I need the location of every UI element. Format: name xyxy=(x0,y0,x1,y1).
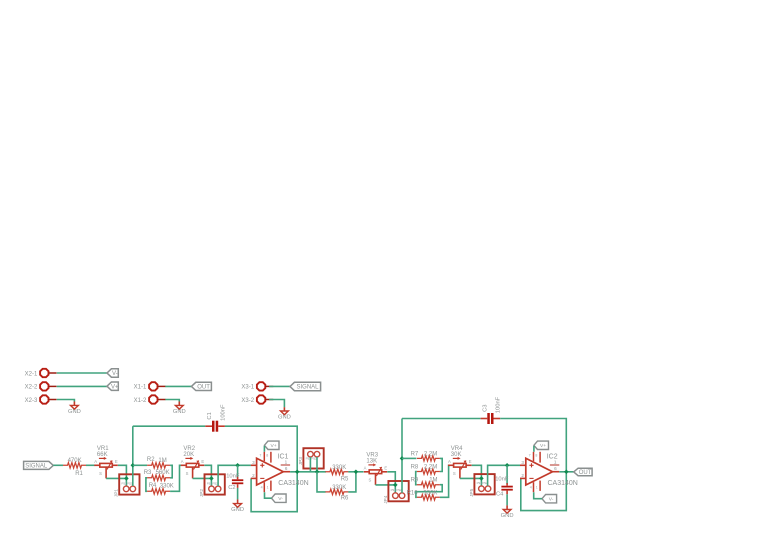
svg-text:4: 4 xyxy=(261,486,263,490)
svg-text:GND: GND xyxy=(173,409,186,415)
potentiometer VR3 13K xyxy=(364,453,388,485)
net flag V- xyxy=(107,369,118,377)
wire VR4 wiper to junction xyxy=(460,477,482,479)
wire R3 to R4 xyxy=(146,478,147,492)
capacitor C3 100nF xyxy=(481,396,502,424)
ground GND at C4 xyxy=(501,510,514,520)
svg-text:330K: 330K xyxy=(423,491,437,497)
label R9 value xyxy=(411,478,438,484)
svg-text:A: A xyxy=(181,459,184,464)
wire SIGNAL to R1 xyxy=(53,464,63,466)
resistor R10 xyxy=(417,495,440,501)
wire R1 to VR1 xyxy=(86,464,95,466)
connector pin X2-1 xyxy=(25,369,57,378)
svg-text:GND: GND xyxy=(501,513,514,519)
wire R4 to VR2 xyxy=(170,465,181,491)
wire X2-1 to V- xyxy=(57,372,107,374)
wire R9 to R10 xyxy=(416,485,442,498)
wire X2-2 to V+ xyxy=(57,385,107,387)
svg-text:3: 3 xyxy=(252,460,255,465)
svg-text:V+: V+ xyxy=(111,384,119,390)
connector pin X2-3 xyxy=(25,395,57,404)
svg-text:GND: GND xyxy=(231,507,244,513)
svg-text:13K: 13K xyxy=(366,458,377,464)
net flag SIGNAL xyxy=(290,382,321,390)
svg-text:R10: R10 xyxy=(407,490,419,496)
power flag V+ at IC1 xyxy=(264,441,279,449)
wire VR2-E down to JP2 xyxy=(204,465,211,486)
junction VR1 wiper/E xyxy=(124,476,129,481)
svg-text:P$1 P$2: P$1 P$2 xyxy=(207,481,218,485)
wire VR1-E down to JP1 xyxy=(118,465,127,486)
label R10 value xyxy=(407,490,438,496)
svg-text:8: 8 xyxy=(535,454,537,458)
wire R8 to R9 xyxy=(416,472,417,485)
svg-text:2.2M: 2.2M xyxy=(424,452,437,458)
svg-text:X3-1: X3-1 xyxy=(241,385,254,391)
wire X3-2 to ground xyxy=(269,400,284,408)
svg-text:C4: C4 xyxy=(496,492,504,498)
svg-text:X1-2: X1-2 xyxy=(134,398,147,404)
svg-text:E: E xyxy=(201,459,204,464)
wire ground stem xyxy=(73,402,75,406)
label R7 value xyxy=(411,452,438,458)
svg-text:JP5: JP5 xyxy=(469,488,475,497)
power flag V- at IC2 xyxy=(542,495,557,503)
capacitor C4 10nF xyxy=(501,483,512,494)
wire node A to R2 xyxy=(133,464,147,466)
svg-text:X2-3: X2-3 xyxy=(25,398,38,404)
wire IC2 pin4 to V- flag xyxy=(534,492,542,499)
svg-text:4: 4 xyxy=(530,486,532,490)
svg-text:V-: V- xyxy=(549,497,554,503)
wire IC1 output to R5 xyxy=(290,471,326,473)
svg-text:10nF: 10nF xyxy=(226,474,240,480)
net flag OUT output xyxy=(574,468,592,476)
resistor R7 xyxy=(417,456,440,462)
connector pin X1-1 xyxy=(134,382,166,391)
svg-text:V-: V- xyxy=(112,371,118,377)
svg-text:OUT: OUT xyxy=(579,470,592,476)
ground GND at X2-3 xyxy=(68,405,81,415)
wire R5 to VR3 xyxy=(348,471,363,473)
svg-text:V-: V- xyxy=(278,496,283,502)
svg-text:A: A xyxy=(448,459,451,464)
svg-text:330K: 330K xyxy=(160,483,174,489)
svg-text:330K: 330K xyxy=(332,485,346,491)
wire X1-2 to ground xyxy=(165,400,179,402)
wire node D to C4 xyxy=(506,465,508,484)
wire JP3 to R6 xyxy=(317,472,326,492)
svg-text:2: 2 xyxy=(252,473,255,478)
wire VR3 wiper to junction xyxy=(376,484,396,486)
wire VR3-E down to JP4 xyxy=(387,472,395,493)
svg-text:S: S xyxy=(99,471,102,476)
svg-text:E: E xyxy=(469,459,472,464)
wire VR1 wiper to junction xyxy=(106,477,126,479)
svg-text:2.2M: 2.2M xyxy=(424,464,437,470)
wire IC2 output to OUT xyxy=(559,471,573,473)
svg-text:470K: 470K xyxy=(68,458,82,464)
svg-text:R9: R9 xyxy=(411,478,419,484)
svg-text:C3: C3 xyxy=(483,404,489,411)
resistor R5 xyxy=(325,469,348,475)
svg-text:R3: R3 xyxy=(144,470,152,476)
svg-text:7: 7 xyxy=(529,454,531,458)
svg-text:OUT: OUT xyxy=(197,385,210,391)
svg-text:1: 1 xyxy=(536,486,538,490)
wire V+ flag to IC1 pin7 xyxy=(263,446,265,452)
svg-text:1M: 1M xyxy=(158,458,166,464)
wire ground stem xyxy=(237,499,239,503)
junction VR2 wiper/E xyxy=(209,476,214,481)
svg-text:C2: C2 xyxy=(228,485,235,491)
svg-text:R2: R2 xyxy=(147,457,155,463)
wire node C to R7 xyxy=(402,457,416,459)
junction VR3 wiper/E xyxy=(393,483,398,488)
potentiometer VR1 66K xyxy=(94,446,118,478)
label R8 value xyxy=(411,464,438,470)
svg-text:CA3140N: CA3140N xyxy=(278,480,308,487)
jumper JP3 xyxy=(298,448,324,468)
connector pin X3-1 xyxy=(241,382,273,391)
svg-text:IC2: IC2 xyxy=(547,454,558,461)
label C2 value xyxy=(226,474,240,491)
svg-text:66K: 66K xyxy=(97,452,108,458)
svg-text:SIGNAL: SIGNAL xyxy=(25,464,48,470)
wire X2-3 to ground xyxy=(57,400,75,402)
net flag SIGNAL input xyxy=(24,461,54,469)
resistor R8 xyxy=(417,469,440,474)
ground GND at C2 xyxy=(231,504,244,514)
svg-text:2: 2 xyxy=(521,473,524,478)
svg-text:CA3140N: CA3140N xyxy=(548,480,578,487)
op-amp IC1 CA3140N xyxy=(251,452,309,492)
svg-text:P$1 P$2: P$1 P$2 xyxy=(391,488,402,492)
wire R2 to R3 xyxy=(170,465,172,478)
svg-text:R1: R1 xyxy=(75,471,83,477)
svg-text:JP3: JP3 xyxy=(298,457,304,466)
wire X3-1 to SIGNAL xyxy=(269,385,290,387)
junction R5/R6/VR3 xyxy=(354,470,359,475)
svg-text:GND: GND xyxy=(278,415,291,421)
svg-text:330K: 330K xyxy=(332,465,346,471)
junction IC1 output xyxy=(295,470,300,475)
wire R10 to VR4 xyxy=(440,465,450,497)
svg-text:8: 8 xyxy=(266,454,268,458)
svg-text:30K: 30K xyxy=(451,452,462,458)
label C4 value xyxy=(495,477,509,498)
svg-text:6: 6 xyxy=(285,466,288,471)
svg-text:X2-1: X2-1 xyxy=(25,371,38,377)
svg-text:X1-1: X1-1 xyxy=(134,385,147,391)
jumper JP4 xyxy=(383,481,409,504)
connector pin X3-2 xyxy=(241,395,273,404)
potentiometer VR2 20K xyxy=(181,446,205,478)
svg-text:C1: C1 xyxy=(207,412,213,419)
svg-text:S: S xyxy=(186,471,189,476)
svg-text:20K: 20K xyxy=(183,452,194,458)
wire node B to IC1 +input xyxy=(218,465,251,486)
resistor R9 xyxy=(417,482,440,488)
wire node D to IC2 +input xyxy=(488,465,521,486)
wire top rail 2 to C3 xyxy=(402,418,481,420)
svg-text:100nF: 100nF xyxy=(220,404,226,421)
label R5 value xyxy=(332,465,349,482)
svg-text:IC1: IC1 xyxy=(278,454,289,461)
node C junction xyxy=(400,456,405,461)
svg-text:JP2: JP2 xyxy=(199,489,205,498)
wire C1 to IC1 output and feedback xyxy=(225,426,297,512)
svg-text:S: S xyxy=(369,477,372,482)
label R3 value xyxy=(144,470,170,476)
wire JP3 pin1 to output net xyxy=(309,457,311,472)
svg-text:R7: R7 xyxy=(411,452,419,458)
svg-text:JP1: JP1 xyxy=(114,489,120,498)
net flag OUT xyxy=(191,382,211,390)
svg-text:A: A xyxy=(94,459,97,464)
label R1 value xyxy=(68,458,84,477)
power flag V- at IC1 xyxy=(272,494,287,502)
potentiometer VR4 30K xyxy=(448,446,472,478)
wire C4 to ground xyxy=(506,494,508,505)
svg-text:V+: V+ xyxy=(540,443,546,449)
svg-text:R8: R8 xyxy=(411,464,419,470)
jumper JP2 xyxy=(199,474,225,497)
svg-text:100nF: 100nF xyxy=(496,396,502,413)
label R2 value xyxy=(147,457,167,464)
resistor R1 xyxy=(63,463,86,469)
wire C2 to ground xyxy=(237,488,239,500)
wire VR2 wiper to junction xyxy=(193,477,212,479)
label R4 value xyxy=(149,483,174,489)
wire ground stem xyxy=(178,402,180,406)
capacitor C2 10nF xyxy=(232,477,243,488)
svg-text:1M: 1M xyxy=(429,478,437,484)
svg-text:X3-2: X3-2 xyxy=(241,398,254,404)
svg-text:E: E xyxy=(384,466,387,471)
wire node B to C2 xyxy=(237,465,239,477)
connector pin X2-2 xyxy=(25,382,57,391)
node A junction xyxy=(131,463,136,468)
wire R6 to junction xyxy=(348,472,356,492)
svg-text:7: 7 xyxy=(259,454,261,458)
wire node C vertical xyxy=(401,419,403,493)
wire ground stem xyxy=(283,407,285,411)
svg-text:P$1 P$2: P$1 P$2 xyxy=(477,481,488,485)
svg-text:3: 3 xyxy=(521,460,524,465)
junction IC2 output xyxy=(564,470,569,475)
connector pin X1-2 xyxy=(134,395,166,404)
jumper JP5 xyxy=(469,474,495,497)
wire JP3 pin2 down xyxy=(316,457,318,472)
node B junction C2 xyxy=(235,463,240,468)
svg-text:S: S xyxy=(453,471,456,476)
net flag V+ xyxy=(107,382,119,390)
svg-text:V+: V+ xyxy=(270,443,276,449)
wire V+ flag to IC2 pin7 xyxy=(533,446,535,452)
node D junction C4 xyxy=(505,463,510,468)
svg-text:P$1 P$2: P$1 P$2 xyxy=(121,481,132,485)
wire IC1 pin4 to V- flag xyxy=(265,492,272,498)
wire C3 to IC2 output and feedback xyxy=(500,419,566,511)
svg-text:R5: R5 xyxy=(341,476,349,482)
svg-text:P$1 P$2: P$1 P$2 xyxy=(306,457,317,461)
resistor R4 xyxy=(147,489,170,495)
svg-text:1: 1 xyxy=(267,486,269,490)
op-amp IC2 CA3140N xyxy=(520,452,578,492)
wire node A vertical xyxy=(132,426,134,486)
capacitor C1 100nF xyxy=(205,404,226,432)
power flag V+ at IC2 xyxy=(534,441,549,449)
svg-text:E: E xyxy=(115,459,118,464)
svg-text:GND: GND xyxy=(68,409,81,415)
wire VR4-E down to JP5 xyxy=(472,465,482,486)
wire ground stem xyxy=(506,505,508,509)
svg-text:JP4: JP4 xyxy=(383,495,389,504)
svg-text:560K: 560K xyxy=(156,470,170,476)
label R6 value xyxy=(332,485,349,501)
junction JP3/R6 xyxy=(315,470,320,475)
svg-text:R4: R4 xyxy=(149,483,157,489)
svg-text:6: 6 xyxy=(554,466,557,471)
svg-text:A: A xyxy=(364,466,367,471)
resistor R6 xyxy=(325,489,348,495)
ground GND at X3-2 xyxy=(278,411,291,421)
wire R7 to R8 xyxy=(440,458,442,471)
wire top rail to C1 xyxy=(133,425,206,427)
jumper JP1 xyxy=(114,474,140,497)
svg-text:10nF: 10nF xyxy=(495,477,509,483)
resistor R2 xyxy=(147,463,170,469)
svg-text:R6: R6 xyxy=(341,496,349,502)
ground GND at X1-2 xyxy=(173,405,186,415)
junction VR4 wiper/E xyxy=(479,476,484,481)
svg-text:SIGNAL: SIGNAL xyxy=(296,385,319,391)
svg-text:X2-2: X2-2 xyxy=(25,385,38,391)
resistor R3 xyxy=(147,475,170,481)
wire X1-1 to OUT xyxy=(165,385,191,387)
